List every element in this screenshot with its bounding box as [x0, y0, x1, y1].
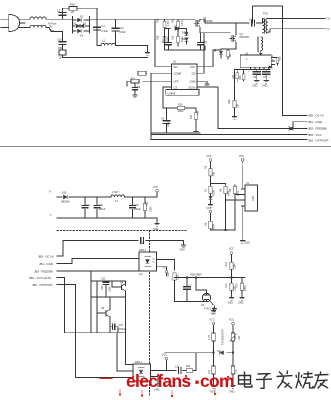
wire DC HI top: [57, 241, 184, 257]
char dian: [239, 372, 252, 388]
U2 right pins: [271, 58, 274, 65]
transistor Q3: [96, 297, 98, 333]
ground: [194, 129, 199, 134]
power symbol VCC f: [165, 357, 168, 362]
dashed isolation line horizontal: [57, 230, 186, 232]
resistor R16: [173, 273, 176, 280]
resistor R17: [213, 353, 215, 366]
resistor R7: [209, 186, 212, 193]
svg-text:VCC: VCC: [153, 186, 158, 189]
inductor L2b bottom choke winding: [30, 25, 46, 27]
svg-text:R30: R30: [70, 3, 75, 7]
svg-text:USB: USB: [252, 196, 255, 201]
resistor R24: [186, 369, 193, 372]
wire T- rail: [57, 217, 157, 219]
svg-text:C18: C18: [249, 19, 254, 22]
power symbol VCC g: [212, 322, 215, 327]
svg-text:R31: R31: [58, 47, 63, 50]
svg-text:U1: U1: [173, 60, 177, 64]
capacitor C15: [109, 322, 111, 325]
diode D6: [269, 66, 272, 69]
svg-text:R33: R33: [279, 56, 282, 61]
capacitor C14: [132, 197, 134, 218]
wire HV rail: [90, 18, 196, 20]
svg-text:910K: 910K: [167, 36, 170, 42]
resistor R14: [194, 113, 197, 120]
svg-text:R13: R13: [225, 283, 228, 288]
svg-text:JB3 - FEEDBK: JB3 - FEEDBK: [308, 127, 327, 131]
svg-text:C14: C14: [134, 204, 139, 207]
resistor R28: [164, 28, 166, 36]
svg-text:VCC: VCC: [229, 319, 234, 322]
capacitor C10: [59, 42, 65, 45]
transistor Q4 IRFP250: [230, 35, 236, 43]
wire bridge top to C1: [90, 18, 98, 20]
svg-text:100K: 100K: [177, 274, 180, 280]
wire T1-: [268, 29, 325, 32]
svg-text:R15: R15: [178, 104, 183, 107]
inductor L1: [101, 43, 115, 45]
diode D4: [220, 351, 224, 355]
resistor R15: [163, 107, 177, 109]
svg-text:U2845: U2845: [168, 92, 176, 96]
resistor R35: [243, 70, 245, 74]
svg-text:JB2 - OTP/OVP: JB2 - OTP/OVP: [308, 139, 328, 143]
svg-text:R34: R34: [232, 74, 235, 79]
svg-text:GND: GND: [180, 249, 186, 252]
svg-text:C17: C17: [175, 366, 180, 369]
dashed isolation line vertical: [149, 231, 151, 397]
wire to opto2: [126, 297, 134, 365]
svg-text:2K: 2K: [71, 10, 74, 14]
wire JB4 vcc: [57, 278, 65, 333]
thermistor R20: [232, 328, 234, 333]
capacitor C1: [96, 8, 98, 45]
svg-text:R28: R28: [157, 35, 160, 40]
capacitor C9: [84, 197, 86, 218]
wire U2 pin rail: [235, 69, 270, 71]
svg-text:C13: C13: [101, 278, 106, 281]
wire T1+: [268, 18, 325, 20]
svg-text:T-: T-: [50, 214, 52, 217]
svg-text:GND: GND: [262, 85, 268, 88]
ground: [156, 218, 158, 221]
resistor R6: [209, 221, 212, 229]
wire plug top to choke: [19, 19, 30, 23]
wire FEEDBK line: [218, 128, 307, 130]
wire JB1 to opto: [57, 259, 139, 264]
wire plug bottom to choke: [19, 27, 31, 29]
svg-text:COMP: COMP: [174, 72, 182, 76]
ground: [254, 78, 259, 83]
top schematic labels: [48, 3, 331, 143]
fuse F1 NI Fuse: [46, 28, 57, 32]
capacitor C6: [265, 70, 267, 72]
resistor R13: [231, 278, 233, 283]
svg-text:GND: GND: [245, 242, 251, 245]
wire C10 to R31: [62, 45, 64, 50]
bridge rectifier D1..D4: [73, 17, 90, 34]
svg-text:JB1 - GND: JB1 - GND: [39, 262, 53, 266]
svg-text:CS: CS: [174, 85, 178, 89]
wire T+ rail: [57, 196, 157, 198]
ground: [240, 238, 245, 243]
wire vref rail: [175, 277, 246, 279]
svg-text:JB1 - GND: JB1 - GND: [308, 120, 322, 124]
svg-text:R27: R27: [229, 53, 232, 58]
svg-text:100K: 100K: [150, 206, 153, 212]
wire bottom rail left: [65, 332, 126, 334]
resistor R24b on COMP line: [138, 71, 146, 75]
ground: [264, 78, 269, 83]
capacitor C16: [96, 197, 98, 218]
wire JB3 feedback: [57, 267, 139, 272]
ground: [229, 295, 234, 300]
transformer TR1 secondary winding: [266, 19, 268, 33]
svg-text:R25: R25: [228, 99, 231, 104]
ground: [145, 50, 150, 55]
X1 pin wires: [242, 189, 246, 206]
svg-text:R18: R18: [235, 369, 238, 374]
capacitor C7: [186, 278, 188, 286]
IC U1 PWM controller: [172, 64, 198, 90]
wire OTP line: [151, 138, 307, 140]
wire aux to U2: [260, 51, 262, 55]
wire lower box: [151, 132, 200, 134]
wire top rail: [63, 8, 98, 19]
transistor Q4b: [125, 281, 127, 286]
svg-text:2/COs: 2/COs: [188, 85, 196, 89]
resistor R34: [236, 70, 238, 73]
ground: [208, 202, 213, 207]
svg-text:IC1: IC1: [139, 273, 143, 276]
capacitor C17: [178, 368, 181, 374]
capacitor C3: [168, 29, 170, 42]
svg-text:GND: GND: [228, 302, 234, 305]
junction TP: [289, 127, 294, 131]
svg-text:JB0 - DC HI: JB0 - DC HI: [308, 113, 324, 117]
USB connector X1: [245, 185, 258, 211]
resistor R32: [177, 19, 179, 21]
resistor R30: [69, 7, 77, 11]
diode D5: [185, 32, 188, 35]
wire bottom rail: [63, 55, 148, 58]
capacitor C5: [256, 70, 258, 72]
svg-text:R14: R14: [197, 110, 200, 115]
inductor L3: [111, 195, 125, 197]
svg-text:R32: R32: [172, 18, 175, 23]
svg-text:com: com: [200, 371, 234, 391]
svg-text:200K: 200K: [244, 285, 247, 291]
svg-text:R11: R11: [131, 78, 136, 81]
svg-text:(F): (F): [49, 26, 52, 29]
watermark logo elecfans.com: [100, 371, 234, 397]
svg-text:GD: GD: [192, 72, 196, 76]
wire JB1 gnd: [293, 122, 307, 129]
wire JB2 otp: [57, 285, 76, 378]
node: bottom wire to C2 column: [57, 32, 63, 41]
svg-text:100uF: 100uF: [167, 120, 170, 127]
svg-text:6.8uF: 6.8uF: [120, 31, 127, 34]
svg-text:R26: R26: [157, 18, 160, 23]
svg-text:VCC: VCC: [163, 267, 168, 270]
svg-text:R20: R20: [234, 335, 237, 340]
resistor R25: [234, 70, 236, 101]
IC U2 secondary controller: [240, 55, 271, 68]
svg-text:ESD: ESD: [237, 191, 240, 196]
svg-text:IRFP250: IRFP250: [203, 20, 213, 23]
power symbol VCC d: [165, 270, 168, 275]
wire lower usb rail: [211, 229, 236, 231]
wire choke to bridge: [46, 18, 73, 20]
ground: [151, 377, 159, 382]
ground: [240, 295, 245, 300]
snubber box wires: [165, 29, 206, 51]
svg-text:R35: R35: [239, 75, 242, 80]
bottom schematic labels: [29, 85, 268, 394]
svg-text:GND: GND: [238, 302, 244, 305]
resistor R12: [177, 28, 179, 36]
svg-text:VCC: VCC: [190, 65, 196, 69]
resistor R26: [164, 19, 166, 21]
char fa: [277, 371, 293, 389]
svg-text:GND: GND: [252, 85, 258, 88]
svg-text:2601-1: 2601-1: [139, 249, 147, 252]
resistor R18: [232, 353, 234, 366]
ground: [133, 93, 138, 98]
svg-text:elecfans: elecfans: [126, 371, 191, 391]
svg-text:100K: 100K: [109, 286, 112, 292]
wire opto1 top right: [157, 260, 175, 271]
power symbol VCC c: [156, 189, 159, 194]
wire q4b bottom: [91, 296, 126, 298]
svg-text:JB4 - VCC (AUX): JB4 - VCC (AUX): [29, 276, 51, 280]
wire bottom rail TL431: [175, 301, 203, 303]
svg-text:49.9K: 49.9K: [213, 189, 216, 196]
svg-text:C11: C11: [120, 27, 125, 30]
svg-text:JB3 - FEEDBK: JB3 - FEEDBK: [34, 269, 53, 273]
svg-text:TR1: TR1: [263, 12, 268, 16]
svg-text:R22: R22: [146, 201, 149, 206]
capacitor C19: [141, 238, 144, 244]
svg-text:49.9K: 49.9K: [213, 223, 216, 230]
svg-text:C1: C1: [102, 24, 106, 28]
svg-text:4700pF: 4700pF: [119, 328, 128, 331]
power symbol VCC h: [232, 322, 235, 327]
optocoupler U5 2601-1: [133, 364, 151, 381]
svg-text:VCC: VCC: [210, 319, 215, 322]
svg-text:INV: INV: [174, 65, 179, 69]
svg-text:2.4M: 2.4M: [181, 21, 184, 26]
svg-text:TL431: TL431: [204, 308, 211, 311]
wire HV to transformer: [200, 19, 263, 23]
char shao: [296, 371, 313, 388]
U1 left pin wires: [155, 19, 172, 67]
svg-text:75K: 75K: [213, 171, 216, 176]
resistor R21: [213, 328, 215, 333]
U1 right pin wires: [197, 50, 221, 67]
capacitor C8: [132, 88, 137, 90]
char zi: [256, 374, 272, 389]
svg-text:C10: C10: [57, 39, 62, 42]
resistor R33: [276, 57, 279, 63]
ground: [183, 241, 185, 243]
shunt regulator U3 TL431: [202, 293, 210, 301]
transformer TR1 aux winding: [261, 37, 263, 51]
svg-text:T1-: T1-: [326, 28, 330, 31]
svg-text:GND: GND: [153, 228, 159, 231]
svg-text:4.7K: 4.7K: [208, 335, 211, 340]
svg-text:T1+: T1+: [326, 18, 331, 21]
wire Q4 source chain: [221, 43, 236, 50]
svg-text:JB5 - DC HI: JB5 - DC HI: [38, 254, 54, 258]
diode D18: [64, 195, 68, 199]
svg-text:10K: 10K: [237, 103, 240, 108]
zener D10: [209, 196, 212, 199]
ground: [212, 306, 217, 311]
svg-text:R1B VREF: R1B VREF: [190, 274, 202, 277]
svg-text:C13: C13: [203, 41, 208, 44]
resistor R10: [241, 278, 243, 283]
wire junction R5: [211, 183, 226, 185]
svg-text:D18: D18: [62, 192, 67, 195]
ground: [231, 383, 236, 388]
transistor network Q4 C13: [91, 271, 126, 281]
logo pin dots: [119, 374, 229, 397]
optocoupler U4 2601-1: [139, 252, 157, 271]
svg-text:100uF: 100uF: [99, 208, 106, 211]
capacitor C13: [200, 33, 202, 42]
U2 bottom pins: [250, 68, 268, 70]
svg-text:UFF: UFF: [174, 79, 179, 83]
resistor R11: [131, 79, 139, 83]
svg-text:C15: C15: [119, 324, 124, 327]
resistor R22: [144, 197, 146, 203]
zener D8: [219, 51, 222, 54]
svg-text:200K: 200K: [178, 110, 184, 113]
svg-text:R23: R23: [101, 285, 104, 290]
svg-text:3.3uF: 3.3uF: [102, 29, 109, 33]
svg-text:R24: R24: [186, 365, 191, 368]
diode D9: [185, 38, 188, 41]
wire VCC line: [151, 134, 307, 136]
junction dots: [186, 277, 188, 279]
transformer TR1 primary winding: [263, 19, 265, 33]
resistor R19: [231, 257, 233, 262]
power symbol VCC e: [230, 252, 233, 257]
svg-text:JB4 - VCC: JB4 - VCC: [308, 133, 322, 137]
svg-text:100K: 100K: [234, 263, 237, 269]
svg-text:2601-1: 2601-1: [135, 361, 143, 364]
svg-text:100uF: 100uF: [134, 208, 141, 211]
watermark chinese 电子发烧友 hand drawn: [239, 371, 329, 389]
capacitor C2: [59, 13, 65, 16]
ground above: [211, 308, 216, 313]
resistor R31: [59, 50, 66, 55]
resistor R9: [234, 185, 236, 195]
AC plug P1: [9, 15, 20, 32]
capacitor C4: [166, 108, 168, 120]
svg-text:VCC: VCC: [162, 354, 167, 357]
svg-text:R10: R10: [236, 283, 239, 288]
svg-text:2.4M: 2.4M: [167, 21, 170, 26]
svg-text:2K: 2K: [59, 57, 62, 60]
wire Q4 drain: [235, 23, 237, 35]
svg-text:20K: 20K: [190, 114, 193, 119]
resistor R8: [225, 184, 227, 186]
svg-text:VCC: VCC: [239, 155, 244, 158]
svg-text:VCC: VCC: [229, 248, 234, 251]
svg-text:R19: R19: [225, 261, 228, 266]
capacitor C11: [115, 19, 117, 45]
svg-text:SB2504: SB2504: [61, 201, 70, 204]
page divider: [0, 146, 331, 148]
svg-text:R12: R12: [172, 35, 175, 40]
capacitor C18: [252, 20, 255, 26]
svg-text:GND: GND: [211, 313, 217, 316]
svg-text:1.5uH: 1.5uH: [112, 191, 119, 194]
wire Q1 source to snubber: [200, 27, 230, 32]
capacitor C13b: [105, 280, 107, 283]
svg-text:10K: 10K: [238, 335, 241, 340]
svg-text:C19: C19: [140, 242, 145, 245]
transformer TR1 enclosure: [252, 6, 307, 116]
svg-text:GND: GND: [190, 79, 196, 83]
resistor R27: [227, 49, 229, 50]
svg-text:VCC: VCC: [207, 155, 212, 158]
ground: [232, 114, 237, 119]
junction dots thermistor: [213, 352, 215, 354]
inductor L2a top choke winding: [30, 17, 46, 19]
diode D7: [175, 27, 179, 31]
transistor Q1: [194, 20, 200, 28]
wire opto2 right: [151, 353, 197, 371]
power symbol VCC j lower left: [209, 210, 212, 215]
svg-text:THERMISTOR: THERMISTOR: [222, 329, 225, 345]
svg-text:C16: C16: [99, 204, 104, 207]
svg-text:VCC: VCC: [207, 207, 212, 210]
power symbol VCC a: [209, 159, 212, 164]
power symbol VCC b: [241, 159, 244, 164]
svg-text:JB2 - OTP/OVP: JB2 - OTP/OVP: [32, 283, 52, 287]
svg-text:R16: R16: [167, 272, 170, 277]
svg-text:IRFP250: IRFP250: [240, 36, 250, 39]
USB block: resistor R5: [210, 164, 212, 169]
ground: [211, 383, 216, 388]
thermistor block: wire vref left: [165, 352, 233, 354]
char you: [314, 371, 328, 388]
